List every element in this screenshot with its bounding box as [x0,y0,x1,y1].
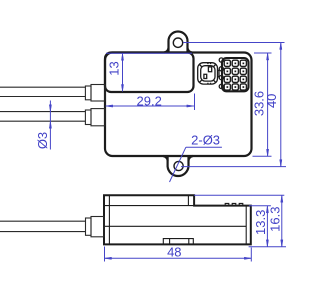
svg-text:48: 48 [167,244,181,259]
svg-text:13: 13 [107,61,122,75]
svg-text:40: 40 [264,94,279,108]
svg-text:2-Ø3: 2-Ø3 [191,132,220,147]
svg-text:29.2: 29.2 [137,93,162,108]
svg-text:16.3: 16.3 [267,207,282,232]
svg-text:Ø3: Ø3 [35,132,50,149]
svg-text:13.3: 13.3 [253,210,268,235]
